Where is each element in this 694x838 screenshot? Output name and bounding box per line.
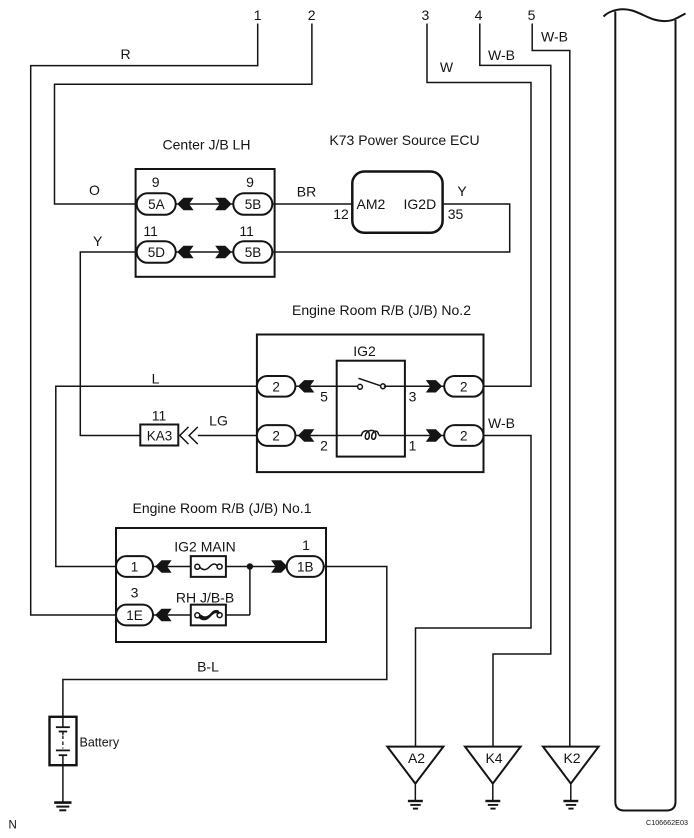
svg-text:1E: 1E [126, 608, 143, 623]
note N [9, 820, 17, 832]
svg-text:3: 3 [131, 585, 139, 601]
svg-text:1: 1 [409, 438, 417, 454]
svg-text:K4: K4 [485, 750, 502, 766]
svg-text:Battery: Battery [80, 736, 120, 750]
arrow [155, 609, 171, 621]
svg-text:5B: 5B [245, 245, 262, 260]
svg-text:O: O [89, 182, 100, 198]
wire label BR [297, 184, 316, 200]
arrow [298, 429, 314, 441]
ECU K73 box [352, 172, 442, 233]
figure code [646, 818, 688, 827]
terminal 5 label [528, 7, 536, 23]
svg-text:A2: A2 [408, 750, 425, 766]
arrow [215, 246, 231, 258]
svg-text:5D: 5D [148, 245, 166, 260]
ECU pin name AM2 [357, 196, 386, 212]
wire 5D to 5B row2 [175, 251, 237, 253]
wire Y from connector 5D to KA3 [80, 252, 140, 436]
wire label W [440, 59, 454, 75]
connector 5A [137, 193, 176, 215]
wire A2 to ground [414, 784, 416, 801]
ground symbol A2 [408, 801, 423, 809]
svg-text:Y: Y [93, 233, 103, 249]
svg-text:W-B: W-B [541, 29, 568, 45]
svg-text:2: 2 [272, 379, 280, 394]
wire W from terminal 3 to R/B No.2 [427, 24, 531, 387]
inline connector chevrons [180, 427, 198, 444]
wire label Y left [93, 233, 103, 249]
wire label W-B [488, 47, 515, 63]
svg-text:IG2D: IG2D [404, 196, 437, 212]
wire row2 [153, 614, 250, 616]
junction dot [247, 563, 253, 569]
wire IG2 to row1 right [384, 385, 444, 387]
wire junction to row2 [249, 567, 251, 616]
svg-text:IG2 MAIN: IG2 MAIN [174, 539, 235, 555]
arrow [271, 560, 287, 572]
svg-text:5B: 5B [245, 197, 262, 212]
arrow [426, 429, 442, 441]
svg-text:1: 1 [131, 560, 139, 575]
battery box [50, 717, 77, 765]
svg-text:N: N [9, 820, 17, 832]
IG2 switch [358, 378, 386, 389]
ground triangle K4 [465, 747, 521, 784]
connector 2 row2 left [257, 425, 296, 446]
svg-text:L: L [152, 371, 160, 387]
wire LG from chevrons to connector 2 row2 [198, 435, 257, 437]
pin 1 label [409, 438, 417, 454]
connector 5B [233, 193, 272, 215]
ground battery [54, 803, 71, 811]
svg-text:W-B: W-B [488, 47, 515, 63]
battery cells [56, 717, 70, 765]
svg-text:5: 5 [528, 7, 536, 23]
svg-text:Center J/B LH: Center J/B LH [163, 137, 251, 153]
wire label LG [209, 413, 228, 429]
terminal 3 label [422, 7, 430, 23]
svg-text:W: W [440, 59, 454, 75]
ground triangle K2 [543, 747, 599, 784]
pin 11 label of KA3 [152, 408, 167, 424]
svg-text:9: 9 [152, 174, 160, 190]
svg-text:IG2: IG2 [353, 343, 376, 359]
pin 11 label of 5D [143, 223, 158, 239]
svg-text:KA3: KA3 [147, 429, 173, 444]
svg-text:C106662E03: C106662E03 [646, 818, 688, 827]
Engine Room R/B No.1 title [133, 500, 312, 516]
wire harness body [615, 12, 675, 811]
ground triangle A2 [387, 747, 443, 784]
wire harness top wave [604, 9, 686, 21]
terminal 1 label [254, 7, 262, 23]
svg-text:BR: BR [297, 184, 316, 200]
Center J/B LH title [163, 137, 251, 153]
svg-text:11: 11 [143, 223, 158, 239]
terminal 4 label [475, 7, 483, 23]
connector 2 row1 right [444, 376, 483, 397]
svg-text:R: R [120, 46, 130, 62]
wire W-B from row2 right to ground A2 [416, 436, 532, 747]
svg-text:Y: Y [457, 183, 467, 199]
svg-text:5A: 5A [148, 197, 165, 212]
pin 9 label of 5B [246, 174, 254, 190]
connector 1 [116, 556, 153, 577]
svg-text:K73 Power Source ECU: K73 Power Source ECU [329, 132, 479, 148]
wire row1 left to IG2 [295, 385, 357, 387]
wire label W-B [541, 29, 568, 45]
IG2 relay label [353, 343, 376, 359]
svg-text:3: 3 [409, 389, 417, 405]
wire O from terminal 2 to connector 5A [55, 24, 312, 205]
connector 1E [116, 605, 153, 626]
connector 5D [137, 241, 176, 263]
pin 2 label [320, 438, 328, 454]
pin 9 label of 5A [152, 174, 160, 190]
svg-text:LG: LG [209, 413, 228, 429]
svg-text:2: 2 [272, 429, 280, 444]
wire label W-B right [488, 415, 515, 431]
wire W-B from terminal 4 to ground K4 [480, 24, 551, 747]
svg-text:AM2: AM2 [357, 196, 386, 212]
svg-text:2: 2 [320, 438, 328, 454]
wire Y from ECU pin 35 to 5B row2 [272, 204, 510, 252]
svg-text:3: 3 [422, 7, 430, 23]
wire B-L from 1B to battery [63, 567, 387, 717]
svg-text:35: 35 [448, 206, 464, 222]
K73 Power Source ECU title [329, 132, 479, 148]
wire label B-L [197, 659, 219, 675]
connector 2 row1 left [257, 376, 296, 397]
arrow [177, 246, 193, 258]
battery label [80, 736, 120, 750]
Engine Room R/B No.2 box [257, 335, 484, 473]
svg-text:2: 2 [308, 7, 316, 23]
wire label R [120, 46, 130, 62]
pin 3 label of 1E [131, 585, 139, 601]
wire 5A to 5B [175, 203, 237, 205]
arrow [155, 560, 171, 572]
connector KA3 [140, 425, 178, 446]
wire IG2 to row2 right [379, 435, 444, 437]
fuse label RH J/B-B [176, 590, 234, 606]
wire BR from 5B to ECU pin 12 [272, 203, 352, 205]
pin 3 label [409, 389, 417, 405]
svg-text:Engine Room R/B (J/B) No.1: Engine Room R/B (J/B) No.1 [133, 500, 312, 516]
IG2 relay box [337, 361, 405, 457]
IG2 coil [362, 430, 379, 439]
Engine Room R/B No.1 box [116, 528, 326, 642]
svg-text:5: 5 [320, 389, 328, 405]
wire label O [89, 182, 100, 198]
svg-text:2: 2 [460, 379, 468, 394]
wire L from R/B No.2 to connector 1 [56, 386, 257, 566]
wire K4 to ground [492, 784, 494, 801]
fusible link RH J/B-B [191, 605, 226, 626]
svg-text:9: 9 [246, 174, 254, 190]
pin 35 label [448, 206, 464, 222]
svg-text:B-L: B-L [197, 659, 219, 675]
svg-text:RH J/B-B: RH J/B-B [176, 590, 234, 606]
svg-text:2: 2 [460, 429, 468, 444]
ground symbol K2 [563, 801, 578, 809]
fuse label IG2 MAIN [174, 539, 235, 555]
arrow [215, 198, 231, 210]
svg-text:K2: K2 [563, 750, 580, 766]
svg-text:1B: 1B [297, 560, 314, 575]
svg-text:12: 12 [333, 206, 349, 222]
svg-text:11: 11 [152, 408, 167, 424]
Center J/B LH box [136, 169, 275, 277]
fuse IG2 MAIN [191, 556, 226, 577]
connector 2 row2 right [444, 425, 483, 446]
svg-text:1: 1 [254, 7, 262, 23]
svg-text:Engine Room R/B (J/B) No.2: Engine Room R/B (J/B) No.2 [292, 302, 471, 318]
wire battery to ground [62, 765, 64, 802]
wire row1 [153, 566, 288, 568]
wire R from terminal 1 to connector 1E [31, 24, 258, 616]
svg-text:1: 1 [302, 537, 310, 553]
arrow [177, 198, 193, 210]
connector 5B row2 [233, 241, 272, 263]
wire label L [152, 371, 160, 387]
arrow [426, 380, 442, 392]
pin 1 label of 1B [302, 537, 310, 553]
pin 5 label [320, 389, 328, 405]
wire W-B from terminal 5 to ground K2 [532, 24, 570, 747]
wire label Y [457, 183, 467, 199]
terminal 2 label [308, 7, 316, 23]
wire row2 left to IG2 [295, 435, 362, 437]
svg-text:W-B: W-B [488, 415, 515, 431]
pin 11 label of 5B row2 [239, 223, 254, 239]
ECU pin name IG2D [404, 196, 437, 212]
ground symbol K4 [485, 801, 500, 809]
svg-text:11: 11 [239, 223, 254, 239]
svg-text:4: 4 [475, 7, 483, 23]
arrow [298, 380, 314, 392]
wire K2 to ground [570, 784, 572, 801]
connector 1B [287, 556, 324, 577]
pin 12 label [333, 206, 349, 222]
Engine Room R/B No.2 title [292, 302, 471, 318]
